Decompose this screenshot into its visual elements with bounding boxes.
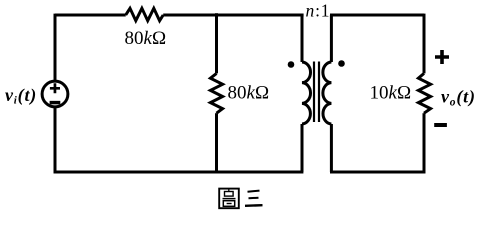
wire: secondary right top	[423, 14, 426, 74]
character 三	[245, 191, 263, 206]
svg-text:80kΩ: 80kΩ	[125, 28, 167, 49]
wire: primary top-right segment	[163, 14, 303, 17]
resistor R2 80k (shunt, vertical)	[210, 73, 222, 113]
resistor R1 80k (series, horizontal)	[126, 8, 164, 20]
source VS1 v_i(t)	[42, 81, 68, 107]
transformer primary winding	[302, 62, 311, 124]
wire: primary winding lead bottom	[301, 124, 304, 172]
caption 圖三 (Figure 3) drawn as strokes	[219, 189, 262, 209]
svg-text:80kΩ: 80kΩ	[228, 83, 270, 104]
character 圖	[219, 189, 239, 209]
wire: secondary top	[330, 14, 424, 17]
wire: secondary right bottom	[423, 113, 426, 173]
svg-text:vo(t): vo(t)	[441, 87, 476, 109]
wire: primary winding lead top	[301, 15, 304, 62]
transformer core lines	[314, 62, 319, 123]
wire: primary top-left segment	[55, 14, 126, 17]
wire: left vertical (source branch)	[54, 14, 57, 174]
polarity dot secondary	[338, 60, 345, 67]
wire: secondary bottom	[330, 171, 425, 174]
wire: primary bottom	[54, 171, 304, 174]
wire: middle branch bottom	[215, 113, 218, 172]
svg-text:10kΩ: 10kΩ	[370, 83, 412, 104]
polarity dot primary	[288, 61, 295, 68]
wire: secondary winding lead top	[330, 15, 333, 62]
resistor R3 10k (load, vertical)	[418, 73, 430, 113]
svg-text:vi(t): vi(t)	[5, 85, 37, 107]
transformer secondary winding	[323, 62, 332, 124]
wire: secondary winding lead bottom	[330, 124, 333, 172]
wire: middle branch top	[215, 13, 218, 73]
svg-text:n:1: n:1	[306, 1, 331, 21]
minus sign (output polarity)	[434, 123, 447, 127]
plus sign (output polarity)	[435, 50, 449, 64]
